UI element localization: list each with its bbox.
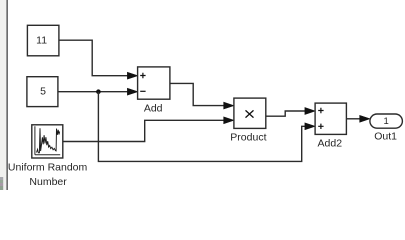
wire UniformRandom -> Product in2	[63, 120, 225, 141]
left gutter colored speckles	[0, 177, 3, 190]
wire Add out -> Product in1	[170, 83, 225, 105]
Add minus sign	[140, 90, 145, 92]
product block	[234, 98, 266, 128]
wire junction -> Add2 in2 (long bottom wire)	[98, 92, 307, 162]
outport Out1 oval	[370, 114, 403, 128]
wire 5 -> Add in2	[58, 91, 129, 93]
multiply x symbol	[246, 110, 254, 117]
svg-text:Uniform Random: Uniform Random	[8, 161, 88, 173]
arrowhead Add2 in1	[305, 108, 315, 115]
svg-text:Number: Number	[29, 176, 67, 188]
constant block 5	[27, 77, 58, 107]
window left gutter strip	[0, 0, 6, 190]
waveform icon axes	[35, 126, 60, 155]
constant block 11	[27, 25, 59, 56]
arrowhead Out1	[360, 115, 370, 122]
waveform icon random trace	[37, 128, 60, 153]
arrowhead Add in1	[127, 72, 137, 79]
svg-text:11: 11	[36, 34, 47, 46]
svg-text:Add: Add	[144, 103, 163, 115]
arrowhead Add2 in2	[305, 123, 315, 130]
svg-text:5: 5	[40, 85, 46, 97]
junction dot on 5-wire	[96, 89, 101, 94]
arrowhead Add in2	[127, 88, 137, 95]
arrowhead Product in2	[224, 117, 234, 124]
arrowhead Product in1	[224, 102, 234, 109]
Add plus sign	[140, 73, 145, 78]
svg-text:Product: Product	[230, 132, 266, 144]
uniform random number block	[32, 125, 63, 158]
sum block Add	[138, 67, 170, 99]
wire 11 -> Add in1	[59, 40, 129, 75]
svg-text:Add2: Add2	[318, 138, 343, 150]
svg-text:Out1: Out1	[374, 131, 397, 143]
wire Add2 out -> Out1	[346, 118, 361, 120]
Add2 plus sign 2	[318, 124, 323, 129]
Add2 plus sign 1	[318, 108, 323, 113]
svg-text:1: 1	[384, 116, 389, 127]
sum block Add2	[315, 103, 346, 134]
window border vertical line	[6, 0, 8, 190]
wire Product out -> Add2 in1	[265, 111, 307, 116]
